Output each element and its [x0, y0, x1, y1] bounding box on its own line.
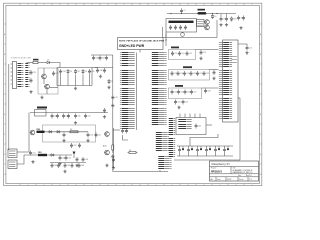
- svg-text:8: 8: [140, 184, 141, 186]
- capacitor C32 J1 side: [30, 78, 33, 83]
- svg-text:POWER IN MICRO USB: POWER IN MICRO USB: [11, 57, 32, 59]
- ground J1 side: [29, 90, 32, 93]
- wire audio left vertical: [28, 113, 30, 153]
- diode D8: [56, 131, 61, 134]
- sheet border row ticks right: [260, 24, 263, 176]
- capacitor C26: [184, 90, 190, 95]
- wire right bus down to title area: [239, 98, 241, 160]
- capacitor C14: [178, 51, 184, 56]
- wire right drop to return: [216, 20, 218, 38]
- svg-text:C14: C14: [181, 53, 184, 55]
- svg-text:D4: D4: [77, 71, 79, 73]
- wire mini rail 2: [95, 67, 113, 69]
- capacitor C29 group below row C: [174, 100, 180, 105]
- ground rail2 a: [58, 162, 61, 165]
- svg-text:C10: C10: [115, 97, 118, 99]
- connector J1 pin labels: [18, 64, 24, 87]
- capacitor C39: [103, 68, 106, 73]
- capacitor C19: [183, 71, 189, 76]
- capacitor C55: [59, 156, 65, 161]
- capacitor C6: [179, 25, 182, 30]
- connector P1 header outline: [176, 118, 206, 135]
- capacitor C62 left bus: [111, 154, 114, 159]
- label regulator row: [37, 107, 47, 109]
- svg-text:C18: C18: [180, 73, 183, 75]
- connector SD pin stripe upper: [156, 133, 169, 151]
- capacitor C11 left of SoC: [111, 103, 114, 108]
- wire mini rail 1: [91, 54, 113, 56]
- diode D3: [67, 69, 72, 74]
- svg-text:C27: C27: [193, 91, 196, 93]
- svg-text:1: 1: [28, 4, 29, 6]
- transistor Q1: [204, 20, 209, 25]
- connector J2 RCA body upper: [8, 149, 17, 158]
- connector P2 left pin stripe lower: [169, 139, 175, 157]
- LED D13 with capacitor: [205, 146, 211, 156]
- wire left stub return: [163, 27, 166, 38]
- wire top rail bridge: [57, 67, 92, 69]
- ground rail2 c: [31, 160, 34, 163]
- svg-text:A3: A3: [211, 178, 213, 181]
- svg-text:C64: C64: [54, 165, 57, 167]
- ferrite bead FB3: [38, 152, 47, 156]
- ground audio q7: [105, 164, 108, 167]
- svg-text:8: 8: [140, 4, 141, 6]
- LED D14 with capacitor: [214, 146, 220, 156]
- title block project cell: [211, 167, 217, 170]
- wire J1 to fuse: [27, 62, 34, 64]
- sheet border column ticks bottom: [20, 184, 253, 187]
- capacitor C34 on rail: [59, 69, 65, 74]
- svg-text:RPI2B2V2: RPI2B2V2: [211, 171, 223, 173]
- title block divider 2: [210, 173, 259, 175]
- LED D12 with capacitor: [196, 146, 202, 156]
- svg-text:C37: C37: [102, 57, 105, 59]
- svg-text:C16: C16: [203, 52, 206, 54]
- ground right cluster: [239, 26, 242, 29]
- capacitor C35 rail right: [88, 69, 94, 74]
- svg-text:4: 4: [204, 4, 205, 6]
- svg-text:D1: D1: [214, 16, 216, 18]
- sheet border outer frame: [4, 3, 262, 185]
- ground bottom row: [63, 170, 66, 173]
- capacitor C54 rail2 left: [29, 151, 35, 156]
- capacitor C46: [74, 114, 80, 119]
- svg-text:C51: C51: [98, 134, 101, 136]
- title block vertical divider: [230, 166, 232, 173]
- capacitor C28 row C right: [204, 89, 210, 94]
- capacitor C38: [96, 68, 102, 73]
- ground filter row: [74, 121, 77, 124]
- U3 BCM left pin column bottom: [120, 109, 135, 129]
- svg-text:C46: C46: [77, 115, 80, 117]
- ground C2: [219, 23, 222, 26]
- ferrite bead FB2: [37, 129, 45, 133]
- decoupling group row C box: [169, 88, 202, 99]
- U5 internal name text rows: [232, 57, 237, 63]
- test point arrow: [73, 152, 76, 159]
- capacitor C22: [203, 71, 209, 76]
- connector J2 RCA body lower: [8, 160, 17, 169]
- capacitor C50: [87, 132, 93, 137]
- transistor Q3 below box: [181, 32, 185, 36]
- diode D16 mid cluster: [230, 17, 236, 22]
- capacitor C17: [171, 71, 177, 76]
- U3 body left edge: [136, 53, 138, 131]
- notes text line 2: [119, 44, 145, 48]
- U3 right pin column upper: [152, 53, 167, 66]
- regulator RG2 dark label bar: [169, 21, 194, 23]
- wire bottom bus: [113, 171, 168, 173]
- wire box left edge down: [165, 32, 167, 38]
- svg-text:C28: C28: [207, 90, 210, 92]
- capacitor C33: [52, 71, 58, 76]
- svg-text:3: 3: [60, 184, 61, 186]
- svg-text:C2: C2: [223, 18, 225, 20]
- U5 left pin rows lower: [219, 99, 232, 119]
- capacitor C31 J1 side: [30, 70, 36, 75]
- svg-text:GND+LED PWR: GND+LED PWR: [119, 44, 145, 48]
- label row A: [171, 47, 179, 49]
- wire P1 to LED row elbow: [190, 134, 218, 146]
- sheet border row ticks left: [4, 24, 7, 176]
- capacitor C68 bottom row: [78, 163, 84, 168]
- svg-text:9/2/12: 9/2/12: [227, 179, 232, 181]
- sheet border column ticks top: [20, 3, 253, 6]
- ground C50: [86, 139, 89, 142]
- wire audio rail 2: [29, 154, 73, 156]
- title block divider 1: [210, 165, 259, 167]
- capacitor C48 row end: [103, 108, 106, 113]
- svg-text:1: 1: [28, 184, 29, 186]
- capacitor C67 bottom row: [71, 163, 74, 168]
- capacitor C53 upper: [78, 143, 81, 148]
- capacitor C4: [169, 25, 172, 30]
- title block sheet title: [233, 169, 254, 174]
- wire audio rail 1: [45, 131, 89, 133]
- svg-text:C12: C12: [249, 47, 252, 49]
- wire row B to U5: [210, 69, 219, 71]
- U3 right pin column bottom: [152, 109, 167, 125]
- svg-text:6: 6: [108, 184, 109, 186]
- diode D6 right col: [108, 79, 113, 84]
- capacitor C3 mid cluster: [225, 14, 228, 22]
- capacitor C36: [92, 56, 98, 61]
- capacitor C7: [184, 25, 187, 30]
- svg-text:Project: Project: [211, 167, 217, 170]
- wire U5 right mid: [238, 97, 240, 99]
- svg-text:2: 2: [172, 184, 173, 186]
- ground mini cluster: [99, 75, 102, 78]
- wire J2 upper to audio: [17, 151, 29, 153]
- ground Q4 Q5: [40, 96, 43, 99]
- svg-text:D6: D6: [111, 81, 113, 83]
- capacitor C27: [190, 90, 196, 95]
- ground right col: [107, 86, 110, 89]
- svg-text:Raspberry Pi: Raspberry Pi: [212, 162, 230, 166]
- svg-text:7: 7: [252, 184, 253, 186]
- capacitor C56: [65, 156, 71, 161]
- transistor Q5: [44, 84, 58, 94]
- label column right of J1: [25, 64, 29, 87]
- diode D9: [50, 154, 55, 157]
- svg-text:C30: C30: [185, 101, 188, 103]
- resistor R3 vertical: [112, 140, 114, 153]
- capacitor C21: [196, 71, 202, 76]
- decoupling group row A box: [169, 50, 196, 60]
- audio loop box outline: [43, 125, 96, 142]
- ferrite bead FB1: [198, 9, 207, 15]
- capacitor C44: [62, 114, 68, 119]
- wire left bus vertical: [112, 55, 114, 140]
- wire power drop to J2: [8, 149, 10, 150]
- diode D4: [74, 69, 79, 74]
- capacitor C43: [56, 114, 59, 119]
- wire 5V input rail: [167, 13, 236, 15]
- capacitor C52 upper: [70, 143, 76, 148]
- connector J1 left stubs: [11, 64, 13, 84]
- svg-text:7: 7: [124, 184, 125, 186]
- svg-text:3: 3: [60, 4, 61, 6]
- capacitor C30 group below row C: [182, 100, 188, 105]
- wire P1 top stubs: [180, 114, 200, 118]
- svg-text:C31: C31: [33, 72, 36, 74]
- LED D10 with capacitor: [178, 146, 184, 156]
- svg-text:C20: C20: [193, 73, 196, 75]
- wire SD bottom to bus: [159, 170, 161, 172]
- title block outline: [210, 161, 259, 181]
- svg-text:C29: C29: [177, 101, 180, 103]
- diode D5: [82, 69, 87, 74]
- title block title text: [212, 162, 230, 166]
- capacitor C5: [174, 25, 177, 30]
- svg-text:6: 6: [236, 4, 237, 6]
- svg-text:R4: R4: [129, 150, 131, 152]
- capacitor C57: [76, 157, 79, 162]
- svg-text:C52: C52: [73, 145, 76, 147]
- svg-text:C50: C50: [90, 134, 93, 136]
- svg-text:C13: C13: [174, 53, 177, 55]
- capacitor C61 below SoC: [125, 129, 128, 134]
- ground rail2 b: [75, 164, 78, 167]
- capacitor C20: [190, 71, 196, 76]
- wire bridge rail right drop: [91, 68, 93, 86]
- regulator U4 box: [35, 110, 47, 117]
- svg-text:C1: C1: [183, 10, 185, 12]
- svg-text:C19: C19: [186, 73, 189, 75]
- wire LED row rail bottom: [177, 155, 233, 157]
- regulator box RG2 outline: [166, 19, 197, 33]
- capacitor C13: [171, 51, 177, 56]
- wire bridge element stems: [61, 74, 90, 86]
- capacitor C2 mid cluster: [220, 14, 226, 22]
- capacitor C10 left of SoC: [111, 95, 117, 100]
- title block project name: [211, 171, 223, 173]
- U3 BCM left pin column lower: [120, 89, 135, 105]
- connector P1 inner labels: [178, 120, 191, 129]
- svg-text:5: 5: [92, 4, 93, 6]
- capacitor C45: [67, 114, 70, 119]
- transistor Q6 filter2: [30, 130, 35, 135]
- svg-text:C58: C58: [85, 159, 88, 161]
- wire SoC bottom left: [113, 129, 120, 131]
- svg-text:C47: C47: [87, 115, 90, 117]
- capacitor C49: [63, 132, 66, 137]
- svg-text:1: 1: [156, 4, 157, 6]
- capacitor C37: [99, 56, 105, 61]
- wire SoC top to notes box: [139, 50, 141, 53]
- connector SD pin stripe lower: [158, 157, 171, 169]
- svg-text:FB2: FB2: [37, 129, 41, 131]
- wire notes box top connection: [165, 34, 166, 47]
- svg-text:3: 3: [188, 184, 189, 186]
- transistor Q8 audio upper: [104, 132, 109, 137]
- svg-text:D16: D16: [233, 19, 236, 21]
- svg-text:C24: C24: [174, 91, 177, 93]
- svg-text:C15: C15: [189, 53, 192, 55]
- wire input drop: [8, 64, 10, 150]
- notes text line 1: [119, 40, 165, 43]
- svg-text:2: 2: [44, 184, 45, 186]
- svg-text:C38: C38: [99, 70, 102, 72]
- decoupling group row B box: [169, 70, 210, 81]
- svg-text:4: 4: [76, 184, 77, 186]
- ground C3: [225, 23, 228, 26]
- svg-text:D5: D5: [85, 71, 87, 73]
- svg-text:C54: C54: [32, 152, 35, 154]
- svg-text:2 / 2: 2 / 2: [249, 179, 252, 181]
- svg-text:C35: C35: [91, 71, 94, 73]
- diode D1 on rail: [211, 13, 216, 19]
- wire U5 top right: [238, 44, 247, 46]
- transistor Q4: [41, 68, 46, 84]
- svg-text:3: 3: [188, 4, 189, 6]
- ground audio right: [112, 166, 115, 169]
- U3 right pin column mid: [152, 71, 167, 85]
- capacitor C65 bottom row: [57, 163, 60, 168]
- title block title cell: [233, 167, 236, 170]
- wire rail to column cluster: [92, 67, 98, 69]
- transistor Q7 audio: [104, 150, 109, 155]
- capacitor C9 right cluster: [242, 16, 245, 21]
- U5 left pin rows upper: [219, 43, 232, 67]
- capacitor C8 right cluster: [237, 16, 243, 21]
- svg-text:F: F: [4, 134, 5, 136]
- capacitor C25: [177, 90, 183, 95]
- ground row A right: [199, 57, 202, 60]
- capacitor C42: [51, 114, 57, 119]
- U3 BCM left pin column mid: [120, 71, 135, 85]
- capacitor C60 below SoC: [121, 129, 127, 134]
- capacitor C24: [171, 90, 177, 95]
- svg-text:6: 6: [236, 184, 237, 186]
- wire LED rail to right bus: [174, 159, 240, 161]
- title block bottom row: [211, 177, 253, 181]
- svg-text:C26: C26: [187, 91, 190, 93]
- svg-text:5: 5: [220, 4, 221, 6]
- U5 LAN9512 body: [223, 40, 239, 122]
- svg-text:5: 5: [220, 184, 221, 186]
- wire crystal area: [123, 135, 129, 140]
- protection box outline: [38, 68, 58, 94]
- wire audio bottom rail: [50, 162, 86, 164]
- wire bridge rail left drop: [56, 68, 58, 86]
- capacitor C66 bottom row: [64, 163, 70, 168]
- fuse F1: [33, 59, 39, 64]
- junction dots power rail: [170, 13, 217, 14]
- svg-text:C68: C68: [81, 165, 84, 167]
- svg-text:C36: C36: [95, 57, 98, 59]
- wire J2 lower to audio: [17, 155, 29, 164]
- svg-text:2: 2: [44, 4, 45, 6]
- ground C49: [62, 139, 65, 142]
- svg-text:1: 1: [156, 184, 157, 186]
- resistor R2: [69, 129, 80, 133]
- svg-text:C56: C56: [68, 157, 71, 159]
- svg-text:NOTE: PIN PLACE OF LED AND JAC: NOTE: PIN PLACE OF LED AND JACK PWR: [119, 40, 165, 43]
- capacitor C64 bottom row: [51, 163, 57, 168]
- diode D7: [48, 131, 53, 134]
- svg-text:5: 5: [92, 184, 93, 186]
- title block size row: [210, 175, 259, 177]
- svg-text:C66: C66: [67, 165, 70, 167]
- regulator U2 body: [197, 20, 205, 27]
- resistor R4: [128, 150, 138, 154]
- U3 right pin column lower: [152, 89, 167, 105]
- ground row B right: [212, 77, 215, 80]
- svg-text:6: 6: [108, 4, 109, 6]
- svg-text:C34: C34: [62, 71, 65, 73]
- connector J1 body: [12, 62, 16, 89]
- svg-text:4: 4: [76, 4, 77, 6]
- capacitor C16 row A right: [200, 50, 206, 55]
- capacitor C23 row B right: [213, 70, 216, 75]
- wire audio right vertical: [113, 128, 115, 168]
- connector P1 left pin stripe: [169, 119, 175, 135]
- svg-text:C25: C25: [180, 91, 183, 93]
- wire row A to U5: [196, 49, 219, 51]
- ground below row C: [177, 106, 180, 109]
- svg-text:7: 7: [252, 4, 253, 6]
- audio opamp label: [103, 145, 107, 148]
- ground row end: [103, 115, 106, 118]
- wire row C to U5: [202, 87, 219, 89]
- wire LED row rail top: [177, 145, 233, 147]
- LED D15 with capacitor: [223, 146, 229, 156]
- LED D11 with capacitor: [187, 146, 193, 156]
- U5 left pin rows mid: [219, 71, 232, 95]
- svg-text:C22: C22: [206, 73, 209, 75]
- capacitor C40: [105, 56, 108, 61]
- label row B: [183, 66, 192, 68]
- svg-text:C21: C21: [199, 73, 202, 75]
- capacitor C47: [84, 114, 90, 119]
- notes box outline: [118, 38, 164, 50]
- svg-text:7: 7: [124, 4, 125, 6]
- svg-text:FB3: FB3: [38, 152, 42, 154]
- svg-text:2: 2: [172, 4, 173, 6]
- capacitor C1 input: [180, 8, 186, 14]
- svg-text:C63: C63: [198, 125, 201, 127]
- wire fuse to diode: [38, 62, 46, 64]
- transistor Q2: [204, 25, 209, 30]
- wire bottom return rail: [166, 37, 217, 39]
- capacitor C18: [177, 71, 183, 76]
- ground bridge: [74, 87, 77, 90]
- capacitor C51: [95, 132, 101, 137]
- label row C: [175, 85, 183, 87]
- capacitor C58: [82, 157, 88, 162]
